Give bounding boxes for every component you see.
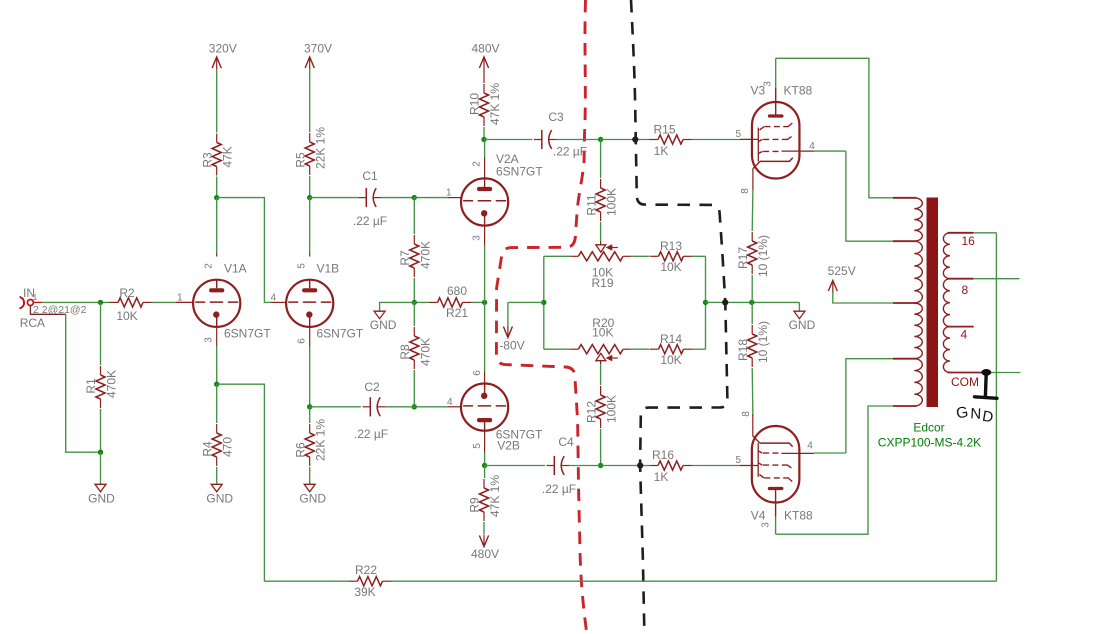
- svg-text:R4: R4: [200, 441, 214, 457]
- svg-text:470K: 470K: [105, 370, 119, 398]
- svg-text:480V: 480V: [471, 42, 499, 56]
- svg-text:5: 5: [472, 443, 483, 449]
- svg-text:2: 2: [472, 161, 483, 167]
- svg-text:KT88: KT88: [784, 84, 813, 98]
- svg-text:22K 1%: 22K 1%: [314, 419, 328, 461]
- svg-text:R12: R12: [584, 401, 598, 423]
- svg-text:C4: C4: [558, 435, 574, 449]
- svg-text:C3: C3: [548, 110, 564, 124]
- svg-text:1K: 1K: [654, 144, 669, 158]
- svg-text:GND: GND: [206, 491, 233, 505]
- svg-text:10 (1%): 10 (1%): [756, 321, 770, 363]
- svg-text:R19: R19: [591, 276, 613, 290]
- svg-text:680: 680: [447, 284, 467, 298]
- svg-text:.22 µF: .22 µF: [354, 427, 388, 441]
- svg-text:GND: GND: [299, 491, 326, 505]
- svg-text:470K: 470K: [418, 241, 432, 269]
- svg-text:.22 µF: .22 µF: [542, 482, 576, 496]
- svg-text:4: 4: [809, 141, 815, 152]
- svg-text:8: 8: [740, 188, 751, 194]
- svg-text:10 (1%): 10 (1%): [756, 235, 770, 277]
- svg-text:.22 µF: .22 µF: [353, 214, 387, 228]
- svg-text:1: 1: [177, 293, 183, 304]
- svg-text:2: 2: [204, 263, 215, 269]
- svg-text:39K: 39K: [354, 585, 375, 599]
- svg-text:22K 1%: 22K 1%: [314, 127, 328, 169]
- svg-text:470: 470: [221, 437, 235, 457]
- svg-text:C2: C2: [364, 380, 380, 394]
- svg-text:R17: R17: [736, 247, 750, 269]
- svg-text:.22 µF: .22 µF: [553, 145, 587, 159]
- svg-text:R6: R6: [293, 442, 307, 458]
- svg-text:N: N: [970, 405, 982, 423]
- svg-text:-80V: -80V: [499, 339, 524, 353]
- svg-text:3: 3: [204, 337, 215, 343]
- svg-text:Edcor: Edcor: [913, 421, 944, 435]
- svg-text:320V: 320V: [209, 42, 237, 56]
- svg-text:3: 3: [761, 522, 772, 528]
- svg-text:6: 6: [297, 338, 308, 344]
- svg-text:V1A: V1A: [224, 262, 247, 276]
- svg-text:5: 5: [735, 455, 741, 466]
- svg-text:R13: R13: [660, 239, 682, 253]
- svg-text:R5: R5: [293, 152, 307, 168]
- svg-text:C1: C1: [362, 169, 378, 183]
- svg-text:R22: R22: [355, 563, 377, 577]
- svg-text:10K: 10K: [660, 353, 681, 367]
- svg-text:R1: R1: [84, 378, 98, 394]
- svg-text:10K: 10K: [660, 260, 681, 274]
- svg-text:1K: 1K: [654, 470, 669, 484]
- svg-text:GND: GND: [789, 318, 816, 332]
- svg-text:V4: V4: [751, 509, 766, 523]
- svg-text:KT88: KT88: [784, 509, 813, 523]
- svg-text:R9: R9: [468, 497, 482, 513]
- svg-text:5: 5: [297, 263, 308, 269]
- svg-text:4: 4: [270, 293, 276, 304]
- svg-text:8: 8: [741, 411, 752, 417]
- svg-text:525V: 525V: [828, 264, 856, 278]
- svg-text:3: 3: [472, 235, 483, 241]
- svg-text:R14: R14: [660, 332, 682, 346]
- svg-text:R8: R8: [398, 344, 412, 360]
- svg-text:100K: 100K: [605, 188, 619, 216]
- svg-text:8: 8: [962, 283, 969, 297]
- svg-text:5: 5: [735, 129, 741, 140]
- svg-text:100K: 100K: [605, 395, 619, 423]
- svg-text:R10: R10: [468, 93, 482, 115]
- svg-text:R11: R11: [584, 194, 598, 215]
- svg-text:R16: R16: [652, 448, 674, 462]
- svg-text:6SN7GT: 6SN7GT: [496, 165, 543, 179]
- svg-text:COM: COM: [951, 375, 979, 389]
- svg-text:6SN7GT: 6SN7GT: [224, 327, 271, 341]
- svg-text:D: D: [981, 408, 995, 427]
- svg-text:GND: GND: [88, 491, 115, 505]
- svg-text:V2B: V2B: [497, 439, 520, 453]
- svg-text:6: 6: [472, 370, 483, 376]
- svg-text:4: 4: [961, 328, 968, 342]
- svg-text:V3: V3: [751, 84, 766, 98]
- svg-text:480V: 480V: [471, 547, 499, 561]
- svg-text:R15: R15: [653, 123, 675, 137]
- svg-text:6SN7GT: 6SN7GT: [317, 327, 364, 341]
- svg-text:470K: 470K: [418, 338, 432, 366]
- svg-text:V1B: V1B: [317, 262, 340, 276]
- svg-text:R3: R3: [200, 152, 214, 168]
- svg-text:4: 4: [807, 441, 813, 452]
- svg-text:R7: R7: [398, 250, 412, 266]
- svg-text:R21: R21: [446, 306, 468, 320]
- svg-text:G: G: [955, 404, 970, 423]
- svg-text:47K 1%: 47K 1%: [488, 475, 502, 517]
- svg-text:CXPP100-MS-4.2K: CXPP100-MS-4.2K: [878, 436, 981, 450]
- svg-text:47K: 47K: [221, 146, 235, 167]
- svg-text:47K 1%: 47K 1%: [488, 83, 502, 125]
- svg-text:16: 16: [962, 234, 976, 248]
- svg-text:GND: GND: [370, 318, 397, 332]
- svg-text:370V: 370V: [304, 42, 332, 56]
- svg-text:1: 1: [446, 188, 452, 199]
- svg-text:R2: R2: [119, 286, 135, 300]
- svg-text:R18: R18: [736, 339, 750, 361]
- svg-text:RCA: RCA: [20, 316, 45, 330]
- svg-text:10K: 10K: [592, 326, 613, 340]
- svg-text:10K: 10K: [116, 309, 137, 323]
